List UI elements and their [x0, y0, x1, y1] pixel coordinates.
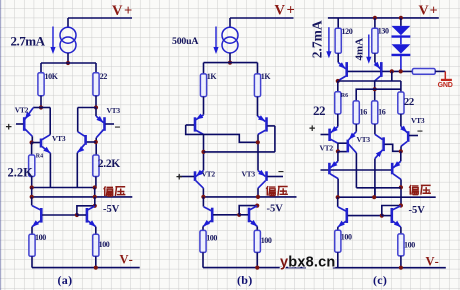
svg-text:1K: 1K [207, 72, 218, 81]
svg-text:130: 130 [378, 27, 389, 36]
node mirror jog top (a) [93, 204, 97, 208]
circuit (b) [172, 3, 306, 288]
transistor mirror-left (b) [202, 197, 204, 207]
gnd series resistor (c) [412, 69, 435, 75]
wire R1 to VT2 node (a) [40, 96, 42, 108]
wire tail rail (b) [204, 62, 258, 64]
wire V+ rail (a) [68, 17, 132, 19]
wire diode jog left (b) [186, 125, 258, 142]
wire bias rail net 偏压 (c) [338, 196, 436, 198]
transistor mirror-right (c) [390, 208, 393, 223]
node V- junction (a) [94, 266, 98, 270]
node R130 top (c) [373, 16, 377, 20]
wire link rails (a) [31, 188, 33, 197]
wire left column (b) [203, 134, 205, 170]
node V- junction (c) [399, 266, 403, 270]
node T1 collector (c) [336, 149, 340, 153]
svg-text:500uA: 500uA [172, 36, 198, 47]
svg-text:4mA: 4mA [354, 38, 366, 61]
svg-text:2.7mA: 2.7mA [310, 20, 325, 58]
net label 偏压 (b) [266, 186, 275, 196]
transistor lower-right UR (c) [393, 161, 401, 168]
node left collector (c) [336, 79, 340, 83]
wire 16-left jog (c) [356, 89, 401, 101]
svg-text:R6: R6 [341, 93, 348, 99]
wire right jog (b) [274, 126, 276, 152]
diode D1 (c) [392, 26, 411, 35]
resistor 100 left (c) [335, 230, 341, 252]
node mirror jog top (c) [399, 203, 403, 207]
resistor 22 (a) [93, 73, 99, 96]
wire T3 base jog (c) [385, 144, 401, 151]
wire V+ rail (b) [230, 17, 294, 19]
node gnd line b (c) [399, 69, 403, 73]
node T4 collector (c) [399, 149, 403, 153]
wire to R2 (b) [257, 63, 259, 74]
net label 偏压 (c) [409, 185, 418, 195]
svg-text:100: 100 [206, 234, 217, 243]
svg-text:100: 100 [99, 240, 110, 249]
wire bias rail 1 (a) [32, 187, 95, 189]
wire mirror jog (a) [77, 206, 95, 215]
svg-text:V-: V- [120, 253, 134, 267]
current arrow 2 (c) [368, 35, 370, 59]
wire V- rail (a) [32, 267, 140, 269]
resistor 16 left (c) [353, 101, 359, 124]
node tail junction (b) [228, 61, 232, 65]
circuit (c) [309, 4, 453, 288]
node right column mid (b) [256, 140, 260, 144]
node mirror jog top (b) [255, 204, 259, 208]
diode D2 (c) [392, 44, 411, 53]
wire VT2c to inner base (a) [32, 142, 40, 144]
current source 2.7mA (a) [60, 27, 76, 43]
wire inner-right base (a) [87, 141, 96, 143]
svg-text:-5V: -5V [103, 204, 120, 215]
wire R120 to left PNP (c) [337, 53, 339, 62]
transistor cascode-left diode (b) [196, 115, 204, 120]
svg-text:(c): (c) [373, 273, 387, 287]
svg-text:GND: GND [438, 82, 453, 89]
node V- junction (b) [255, 266, 259, 270]
svg-text:(b): (b) [237, 273, 253, 287]
transistor lower-left UL (c) [330, 161, 338, 168]
transistor mirror-left (c) [337, 197, 339, 207]
svg-text:100: 100 [341, 233, 352, 242]
ground GND (c) [444, 71, 446, 79]
resistor 100 right (b) [254, 230, 260, 252]
node left emitter (a) [39, 105, 43, 109]
svg-text:-5V: -5V [409, 205, 426, 216]
svg-text:100: 100 [404, 241, 415, 250]
wire V- rail (c) [333, 267, 446, 269]
svg-text:−: − [417, 127, 423, 138]
svg-text:2.2K: 2.2K [8, 166, 34, 180]
svg-text:VT3: VT3 [357, 135, 371, 144]
resistor 16 right (c) [372, 101, 378, 124]
resistor 100 right (a) [93, 234, 99, 256]
transistor mirror-left (a) [31, 197, 33, 206]
svg-text:22: 22 [100, 72, 108, 81]
resistor 1K right (b) [254, 74, 260, 97]
transistor T3 (c) [374, 124, 376, 134]
node 16 junction (c) [373, 87, 377, 91]
svg-text:16: 16 [378, 108, 386, 117]
wire V- rail (b) [203, 267, 306, 269]
wire right collector down (c) [374, 81, 376, 101]
current source 500uA (b) [222, 27, 238, 43]
node VT3 collector (a) [94, 140, 98, 144]
wire UL collector down (c) [337, 179, 339, 198]
node rail mid (c) [372, 195, 376, 199]
node rail left (c) [336, 195, 340, 199]
wire right column (b) [257, 134, 259, 170]
wire mirror jog (c) [382, 206, 401, 216]
svg-text:+: + [309, 123, 315, 135]
wire edge artifact left [0, 0, 2, 290]
node mirror base (a) [75, 213, 79, 217]
circuit (a) [6, 3, 140, 287]
current direction arrow (a) [52, 27, 54, 49]
wire to R1 (b) [203, 63, 205, 74]
wire current source bottom (b) [229, 53, 231, 63]
node UR mid (c) [399, 185, 403, 189]
node mirror base (b) [237, 213, 241, 217]
wire UR collector down (c) [400, 179, 402, 205]
svg-text:1K: 1K [261, 72, 272, 81]
wire to R1 (a) [40, 63, 42, 73]
wire T1 collector net (c) [338, 142, 347, 144]
svg-text:-5V: -5V [267, 204, 284, 215]
wire link to collector line (c) [391, 71, 393, 81]
wire V+ rail (c) [328, 17, 439, 19]
wire R2 to VT3 node (a) [95, 96, 97, 108]
node VT2 collector (a) [30, 140, 34, 144]
wire to diodes (c) [400, 18, 402, 26]
current arrow 1 (c) [328, 27, 330, 52]
wire diodes to gnd line (c) [400, 55, 402, 72]
svg-text:−: − [278, 167, 284, 178]
svg-text:−: − [115, 123, 121, 134]
transistor cascode-right (b) [258, 116, 266, 122]
svg-text:VT3: VT3 [411, 116, 425, 125]
node right emitter (a) [94, 105, 98, 109]
svg-text:VT2: VT2 [15, 106, 29, 115]
resistor 100 right (c) [398, 234, 404, 256]
svg-text:+: + [6, 122, 12, 134]
wire mirror jog (b) [239, 206, 257, 215]
wire T2col link down (c) [374, 188, 376, 197]
node mirror base (c) [380, 214, 384, 218]
svg-text:V+: V+ [275, 3, 297, 19]
wire lower base tie (c) [321, 169, 392, 171]
wire cross link (b) [204, 151, 275, 153]
transistor inner-right (a) [84, 135, 87, 145]
node diode top (c) [399, 16, 403, 20]
resistor 2.2K right (a) [93, 155, 99, 177]
svg-text:100: 100 [35, 233, 46, 242]
wire collector tie (c) [338, 80, 401, 82]
resistor 130 (c) [372, 28, 378, 53]
transistor mirror-right (b) [248, 208, 251, 223]
wire left collector down (c) [337, 81, 339, 92]
svg-text:100: 100 [261, 236, 272, 245]
resistor 10K (a) [38, 73, 44, 96]
wire bias rail 2 net 偏压 (a) [32, 196, 133, 198]
node: tail junction (a) [66, 61, 70, 65]
svg-text:22: 22 [313, 103, 325, 118]
net label 偏压 (a) [104, 186, 113, 196]
wire current source top (a) [67, 18, 69, 27]
svg-text:V+: V+ [112, 3, 134, 19]
wire T4c down (c) [400, 151, 402, 161]
wire tail rail (a) [41, 62, 96, 64]
resistor 2.2K left (a) [31, 143, 33, 156]
transistor upper-right PNP (c) [375, 62, 380, 69]
svg-text:16: 16 [360, 108, 368, 117]
svg-text:VT3: VT3 [107, 106, 121, 115]
node left column mid (b) [201, 150, 205, 154]
current direction arrow (b) [215, 27, 217, 49]
svg-text:22: 22 [404, 96, 415, 108]
svg-text:120: 120 [342, 27, 353, 36]
svg-text:VT3: VT3 [242, 169, 256, 178]
transistor upper-left PNP (c) [338, 62, 346, 69]
wire T2 collector down (c) [355, 153, 357, 188]
resistor 100 left (b) [200, 230, 206, 252]
node gnd line a (c) [390, 69, 394, 73]
wire bias rail net 偏压 (b) [203, 196, 296, 198]
resistor 120 (c) [335, 28, 341, 53]
svg-text:+: + [176, 172, 182, 184]
wire current source bottom (a) [67, 53, 69, 63]
svg-text:V+: V+ [419, 4, 439, 19]
svg-text:2.7mA: 2.7mA [11, 34, 46, 49]
wire to R130 (c) [374, 18, 376, 28]
transistor mirror-right (a) [86, 208, 89, 223]
wire base tie gnd line (c) [348, 70, 381, 72]
svg-text:(a): (a) [58, 273, 73, 287]
wire cross link lower (c) [356, 187, 401, 189]
resistor 22 right (c) [398, 92, 404, 114]
svg-text:VT2: VT2 [320, 144, 334, 153]
svg-text:ybx8.cn: ybx8.cn [280, 254, 335, 270]
svg-text:2.2K: 2.2K [98, 158, 120, 170]
svg-text:VT3: VT3 [52, 134, 66, 143]
svg-text:R4: R4 [36, 154, 43, 160]
svg-text:V-: V- [426, 255, 440, 269]
wire current source top (b) [229, 18, 231, 27]
resistor 1K left (b) [200, 74, 206, 97]
resistor 100 left (a) [29, 234, 35, 256]
wire T3 emitter down (c) [374, 159, 376, 198]
wire to R 120 (c) [337, 18, 339, 28]
resistor R6 22 (c) [335, 92, 341, 114]
wire to R2 (a) [95, 63, 97, 73]
wire resistor to GND (c) [435, 70, 445, 72]
svg-text:10K: 10K [45, 72, 59, 81]
